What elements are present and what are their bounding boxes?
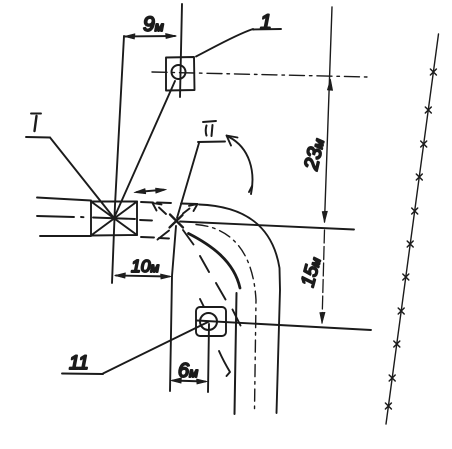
road top edge dashes [141, 202, 197, 204]
conflict point X [170, 215, 184, 228]
dimension 10м arrowheads [115, 273, 172, 279]
dimension 23м line [325, 7, 333, 222]
extension line left of 9м down to crossing box [112, 36, 124, 283]
dimension 6м line [173, 381, 205, 382]
traffic light 11 square [196, 307, 226, 336]
vertical line below traffic light 11 [208, 324, 209, 392]
boundary x marks [385, 69, 436, 409]
double headed arrow [137, 190, 164, 192]
label II overbar [203, 121, 216, 122]
curved turn arrow tail tick [249, 186, 252, 192]
label I overbar [31, 113, 41, 115]
dimension 23м top arrowhead [327, 79, 332, 90]
label 11 underline [62, 373, 103, 376]
label 1 underline [253, 28, 281, 31]
svg-text:11: 11 [69, 353, 89, 374]
leader from traffic light 1 to box center [114, 81, 175, 218]
dimension 10м line [116, 276, 169, 277]
dimension 15м line [322, 230, 325, 323]
road centerline dash-dot [37, 216, 152, 221]
crossing box diagonal 1 [91, 202, 137, 236]
dimension 15м arrowhead [320, 312, 325, 323]
turning road centerline dash-dot [196, 225, 256, 411]
label I underline [26, 136, 50, 139]
extension line vertical through traffic light 1 [180, 4, 182, 97]
label I stroke [35, 116, 37, 131]
label 11 leader [103, 322, 209, 374]
horizontal line through traffic light 11 [197, 321, 371, 331]
dashed arrow up-left [153, 203, 167, 214]
road bottom edge [40, 235, 91, 237]
crossing box diagonal 2 [91, 202, 137, 236]
svg-text:1: 1 [260, 11, 272, 34]
dimension 23м bottom arrowhead [322, 211, 327, 222]
road bottom edge dashes [141, 237, 169, 239]
traffic light 1 square [166, 57, 195, 91]
traffic light 1 circle [172, 65, 186, 79]
crossing box rectangle [91, 202, 137, 236]
dimension 9м arrowheads [124, 33, 177, 39]
label II strokes [206, 125, 213, 136]
dashed trajectory to traffic light 11 [183, 230, 241, 326]
dashed arm down-left [158, 231, 170, 240]
curved turn arrow [229, 137, 252, 194]
curved turn arrowhead [227, 136, 238, 146]
label II underline [198, 141, 225, 144]
label 1 leader [196, 29, 253, 57]
boundary line with x marks [386, 34, 439, 424]
horizontal line right of conflict point [180, 222, 354, 230]
vertical road left edge [235, 293, 237, 414]
curved dash near traffic light 11 [219, 351, 230, 376]
extension line below conflict point [170, 226, 176, 391]
road top edge [37, 198, 91, 201]
inner curve of turning road [189, 234, 241, 289]
axis dash-dot line through traffic light 1 [152, 72, 367, 77]
outer curve of turning road [199, 205, 280, 414]
dashed arrow up-right [183, 204, 198, 214]
label I leader to box [50, 138, 114, 219]
dimension 9м line [125, 35, 175, 38]
label II leader [177, 143, 199, 218]
traffic light 11 circle [200, 313, 217, 330]
dimension 6м arrowheads [171, 378, 208, 384]
dash above traffic light 11 [200, 299, 204, 307]
